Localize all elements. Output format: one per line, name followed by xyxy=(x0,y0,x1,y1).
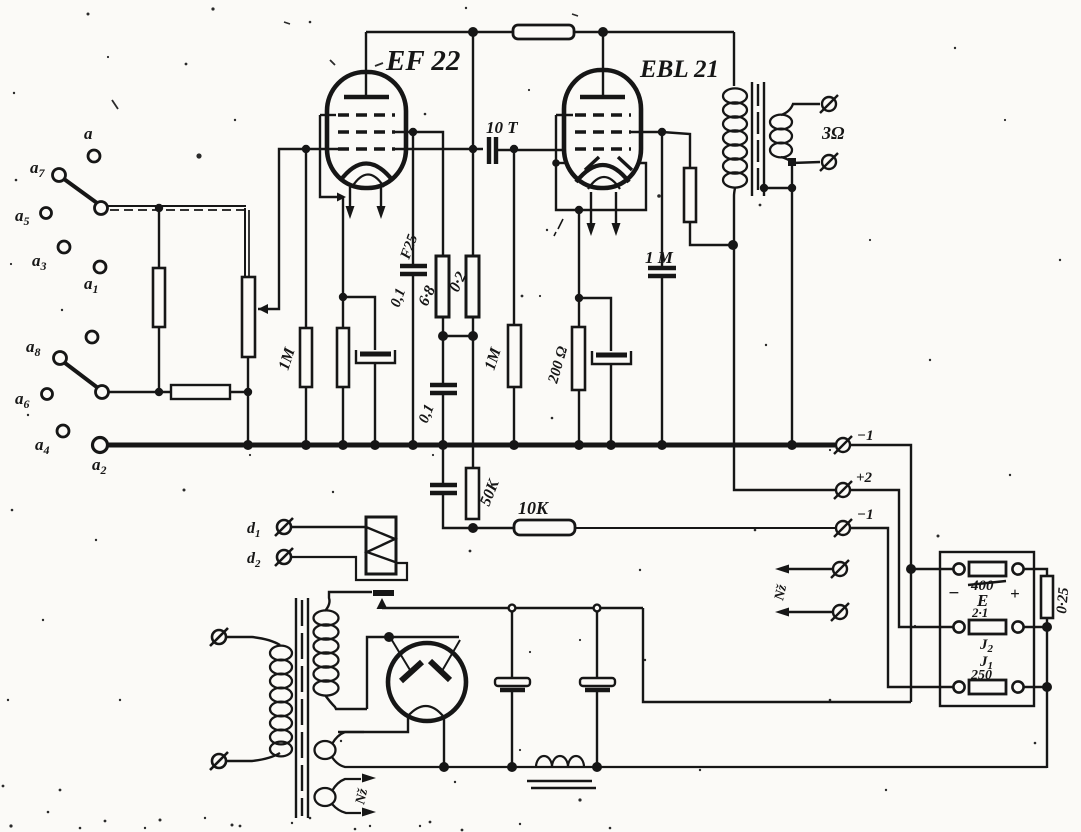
wire: cap1 drop xyxy=(511,611,513,678)
terminal mains bottom xyxy=(210,752,228,770)
wire: C8 to R8 bottom node xyxy=(443,493,473,528)
wire: wiper to EF22 grid g1 xyxy=(258,149,338,309)
terminal heater top xyxy=(831,560,849,578)
heater pin 2 arrowhead xyxy=(612,223,621,236)
EF22 g3 stub xyxy=(320,114,336,116)
wire: R12 to -1 bias terminal xyxy=(575,527,836,529)
wire: heater terminal top xyxy=(787,568,832,570)
wire: mains bottom lead xyxy=(226,753,280,761)
wire: junction down to C4 xyxy=(442,336,444,383)
switch S2 contact xyxy=(96,386,109,399)
terminal a8 xyxy=(54,352,67,365)
wire: g2 node to R11 xyxy=(662,132,690,168)
terminal mains top xyxy=(210,628,228,646)
wire: row1 junction to battery xyxy=(911,568,953,570)
junction R11 / transformer primary xyxy=(728,240,738,250)
EBL21 grid g1 row xyxy=(575,147,631,151)
junction cathode box xyxy=(575,206,583,214)
wire: R11 bottom to +2 node xyxy=(690,222,733,245)
battery row2 pin right xyxy=(1012,621,1023,632)
T1 secondary winding xyxy=(770,115,792,158)
svg-text:EBL 21: EBL 21 xyxy=(639,56,719,83)
T2 core xyxy=(296,598,308,818)
junction R4/bus xyxy=(338,440,348,450)
junction R3/bus xyxy=(301,440,311,450)
capacitor C2 (cathode bypass) xyxy=(356,350,395,363)
wire: B- line to battery column xyxy=(643,608,911,702)
terminal heater bottom xyxy=(831,603,849,621)
junction g2 node xyxy=(409,128,417,136)
junction filter cap2 top xyxy=(594,605,601,612)
wire: C7 to bus xyxy=(661,276,663,445)
junction core stub left xyxy=(760,184,768,192)
EF22 grid g2 row xyxy=(338,130,395,134)
filter capacitor C9 xyxy=(495,678,530,690)
chassis bus wire xyxy=(108,443,835,448)
wire: C6 to bus xyxy=(610,364,612,445)
EBL21 inner bottom arc xyxy=(588,177,620,189)
arrow to heater top xyxy=(775,565,789,574)
wire: filament left lead to winding xyxy=(338,717,408,732)
junction filament/B+ xyxy=(439,762,449,772)
terminal a2 (chassis bus) xyxy=(93,438,108,453)
capacitor C6 (EBL21 cathode bypass) xyxy=(592,351,631,364)
EBL21 g3 stub xyxy=(556,114,573,116)
terminal +2 xyxy=(834,481,852,499)
battery row3 fuse xyxy=(969,680,1006,694)
wire: R8 node to R12 xyxy=(473,527,514,529)
filter capacitor C10 xyxy=(580,678,615,690)
terminal a1 xyxy=(94,261,106,273)
junction pot bottom line xyxy=(244,388,252,396)
junction R10/bus xyxy=(574,440,584,450)
wire: R6 bottom to junction xyxy=(472,317,474,336)
junction core stub right xyxy=(788,184,796,192)
switch S1 arm xyxy=(64,179,97,203)
wire: R3 to bus xyxy=(305,387,307,445)
svg-text:−: − xyxy=(948,583,960,604)
svg-text:1 M: 1 M xyxy=(645,248,674,267)
resistor R13 0.25 xyxy=(1041,576,1053,618)
junction row2/right rail xyxy=(1042,622,1052,632)
resistor R8 50K xyxy=(466,468,479,519)
wire: row2 right stub xyxy=(1024,626,1047,628)
wire: -1 to battery row1 xyxy=(850,445,911,702)
EF22 heater pin 1 xyxy=(349,187,351,211)
resistor R1 (input divider) xyxy=(153,268,165,327)
battery row1 pin right xyxy=(1012,563,1023,574)
wire: C4 to bus xyxy=(442,393,444,445)
wire: C10 to B+ rail xyxy=(596,690,598,767)
rectifier anode plate right xyxy=(430,661,450,680)
svg-text:10 T: 10 T xyxy=(486,118,518,137)
wire: R4 to bus xyxy=(342,387,344,445)
heater lead top xyxy=(332,779,361,791)
junction anode/HT rail xyxy=(598,27,608,37)
wire: row3 right stub xyxy=(1024,686,1047,688)
rectifier anode plate left xyxy=(401,662,422,681)
speaker terminal bottom xyxy=(820,153,838,171)
wire: R10 to bus xyxy=(578,390,580,445)
junction C2/bus xyxy=(370,440,380,450)
pot wiper arrow xyxy=(258,304,268,314)
T1 primary winding xyxy=(723,88,747,187)
T2 HV secondary winding xyxy=(314,610,339,695)
T2 primary winding xyxy=(270,646,292,757)
wire: d1 to coil box xyxy=(291,526,366,528)
battery row3 pin left xyxy=(953,681,964,692)
wire: branch to C2 bypass xyxy=(343,297,375,350)
wire: anode riser xyxy=(367,637,389,709)
EBL21 beam plate right xyxy=(618,157,632,170)
svg-text:−1: −1 xyxy=(857,507,874,523)
battery row2 pin left xyxy=(953,621,964,632)
wire: rail down through g1 line to R6 xyxy=(472,32,474,256)
junction C7/bus xyxy=(657,440,667,450)
wire: C5 to EBL21 g1 xyxy=(497,149,564,151)
choke core line 1 xyxy=(527,780,592,782)
speaker terminal top xyxy=(820,95,838,113)
resistor R4 (EF22 cathode) xyxy=(337,328,349,387)
junction filter cap1 top xyxy=(509,605,516,612)
tube EBL21 envelope xyxy=(564,70,641,188)
EBL21 heater pin 1 xyxy=(590,192,592,228)
filter choke L1 xyxy=(536,756,584,767)
wire: junction down to R1 xyxy=(158,208,160,268)
resistor R9 1M (EBL21 grid leak) xyxy=(508,325,521,387)
resistor R6 0.2 xyxy=(466,256,479,317)
EBL21 anode lead xyxy=(602,32,604,97)
wire: secondary top lead to speaker terminal xyxy=(781,104,820,115)
EF22 grid g3 row xyxy=(338,113,395,117)
wire: junction down to R3 xyxy=(305,149,307,328)
EBL21 cathode stub xyxy=(556,162,567,164)
wire: C9 to B+ rail xyxy=(511,690,513,767)
capacitor C7 1M xyxy=(648,268,676,276)
spare terminal xyxy=(86,331,98,343)
wire: double vertical to pot xyxy=(244,208,246,277)
EBL21 grid g2 row xyxy=(575,130,631,134)
wire: branch to C6 bypass xyxy=(579,298,611,351)
T1 core xyxy=(752,82,764,196)
svg-text:3Ω: 3Ω xyxy=(821,123,845,143)
wire: junction down to R9 1M xyxy=(513,149,515,325)
winding lead top xyxy=(332,732,364,744)
field coil box xyxy=(366,517,396,574)
wire: g2 stub right xyxy=(631,131,662,133)
EBL21 grid g3 row xyxy=(575,113,631,117)
wire: bus down to C8 xyxy=(442,445,444,483)
wire: B- line from plug to filter xyxy=(382,607,643,609)
svg-text:+: + xyxy=(1010,584,1020,603)
EF22 grid g1 row xyxy=(338,147,395,151)
junction anode feed xyxy=(384,632,394,642)
terminal -1 (bias) xyxy=(834,519,852,537)
stray pen mark xyxy=(554,219,563,236)
wire: R6 node down to R8 50K (crosses bus) xyxy=(472,336,474,468)
T2 heater winding xyxy=(315,788,336,806)
wire: +2 to battery row2 xyxy=(850,490,953,627)
capacitor C4 0,1 xyxy=(430,385,457,393)
resistor R2 (horizontal) xyxy=(171,385,230,399)
wire: R2 to pot bottom xyxy=(230,391,248,393)
winding lead bottom (B+ rail start) xyxy=(332,757,1047,767)
wire: heater terminal bottom xyxy=(787,611,832,613)
wire: C2 to bus xyxy=(374,363,376,445)
EF22 heater pin 2 xyxy=(380,187,382,211)
terminal a3 xyxy=(58,241,70,253)
EF22 inner bottom arc xyxy=(352,175,384,188)
battery row2 fuse xyxy=(969,620,1006,634)
battery box outline xyxy=(940,552,1034,706)
svg-text:EF 22: EF 22 xyxy=(385,45,460,77)
wire: S1 to pot top (double shielded line) xyxy=(107,205,246,207)
junction cathode/C bypass xyxy=(575,294,583,302)
resistor R7 (HT dropper, top) xyxy=(513,25,574,39)
terminal a4 xyxy=(57,425,69,437)
junction C9/B+ xyxy=(507,762,517,772)
g3-cathode arrow xyxy=(337,193,346,202)
battery row1 pin left xyxy=(953,563,964,574)
junction R9/bus xyxy=(509,440,519,450)
EBL21 anode plate xyxy=(580,95,625,100)
resistor R5 6.8 xyxy=(436,256,449,317)
tube EF22 envelope xyxy=(327,72,406,188)
junction g1 / R3 xyxy=(302,145,310,153)
wire: g1 row to coupling cap xyxy=(395,148,483,150)
wire: R5-R6 junction link xyxy=(443,335,473,337)
wire: HV bottom lead xyxy=(325,695,367,709)
junction R6 node xyxy=(468,331,478,341)
junction C3/bus xyxy=(408,440,418,450)
wire: cathode line down to R4 xyxy=(342,197,344,328)
resistor R10 200 ohm (EBL21 cathode) xyxy=(572,327,585,390)
junction R5 node xyxy=(438,331,448,341)
svg-text:−1: −1 xyxy=(857,428,874,444)
junction on S1 line xyxy=(155,204,163,212)
wire: HV top lead to plug contact xyxy=(325,592,372,611)
wire: R1 bottom to S2 line xyxy=(158,327,160,392)
switch S1 contact xyxy=(95,202,108,215)
wire: pot bottom to bus xyxy=(247,357,249,445)
junction C4/bus xyxy=(438,440,448,450)
wire: R5 bottom to junction xyxy=(442,317,444,336)
wire: g2 node down to C7 xyxy=(661,132,663,266)
label 400 (struck) xyxy=(968,578,1006,594)
capacitor C8 xyxy=(430,485,457,493)
choke core line 2 xyxy=(531,787,596,789)
junction rail/g1 coupling node xyxy=(469,145,477,153)
terminal -1 (bus) xyxy=(834,436,852,454)
terminal a6 xyxy=(42,389,53,400)
capacitor C3 0,1 F25 xyxy=(400,266,427,274)
switch S2 arm xyxy=(65,363,98,388)
resistor R3 1M (grid leak) xyxy=(300,328,312,387)
junction R8 bottom xyxy=(468,523,478,533)
rectifier anode lead left xyxy=(390,637,410,670)
terminal a xyxy=(88,150,100,162)
junction coupling/grid leak xyxy=(510,145,518,153)
plug arrow xyxy=(377,598,388,609)
svg-text:a: a xyxy=(84,124,93,143)
terminal a5 xyxy=(41,208,52,219)
wire: cathode down to R10 xyxy=(578,210,580,327)
battery row1 fuse xyxy=(969,562,1006,576)
battery row3 pin right xyxy=(1012,681,1023,692)
wire: primary bottom to +2 terminal (crosses bus) xyxy=(734,245,835,490)
wire: row1 right to R13 xyxy=(1024,569,1047,576)
EBL21 cathode arc xyxy=(576,165,629,182)
wire: g2 stub right xyxy=(395,131,413,133)
wire: anode bridge xyxy=(389,636,459,638)
svg-text:10K: 10K xyxy=(518,498,550,518)
junction secondary bottom xyxy=(788,158,796,166)
svg-text:2·1: 2·1 xyxy=(971,605,988,620)
resistor R12 10K xyxy=(514,520,575,535)
junction pot/bus xyxy=(243,440,253,450)
junction g2 node EBL xyxy=(658,128,666,136)
junction row3/right rail xyxy=(1042,682,1052,692)
junction cathode / C bypass xyxy=(339,293,347,301)
junction C6/bus xyxy=(606,440,616,450)
wire: HT rail down to primary xyxy=(733,32,735,86)
heater arrow top xyxy=(362,774,376,783)
wire: S2 contact to R2 xyxy=(108,391,171,393)
wire: g2 node down to C3 xyxy=(412,132,414,264)
junction cathode stub xyxy=(552,159,560,167)
rectifier anode lead right xyxy=(442,640,460,671)
plug contact bar xyxy=(373,590,394,596)
heater lead bottom xyxy=(332,804,361,813)
junction S2 line / R1 xyxy=(155,388,163,396)
terminal d1 xyxy=(275,518,293,536)
wire: g2 node to R5 top xyxy=(413,132,443,256)
arrow to heater bottom xyxy=(775,608,789,617)
terminal d2 xyxy=(275,548,293,566)
heater arrow bottom xyxy=(362,808,376,817)
terminal a7 xyxy=(53,169,66,182)
field coil zigzag xyxy=(366,527,395,562)
heater pin 1 arrowhead xyxy=(587,223,596,236)
wire: cap2 drop xyxy=(596,611,598,678)
wire: mains top lead xyxy=(226,637,280,645)
junction battery row1 feed xyxy=(906,564,916,574)
EBL21 beam plate left xyxy=(585,157,599,170)
potentiometer P1 body xyxy=(242,277,255,357)
wire: secondary bottom lead xyxy=(781,157,820,163)
heater pin 1 arrowhead xyxy=(346,206,355,219)
EBL21 cathode box xyxy=(556,115,646,210)
svg-text:0·25: 0·25 xyxy=(1054,586,1072,614)
wire: R9 to bus xyxy=(513,387,515,445)
wire: R13 down the right side to B+ rail xyxy=(1046,618,1048,768)
rectifier V3 envelope xyxy=(388,643,466,721)
junction anode/R6 rail xyxy=(468,27,478,37)
wire: primary bottom lead xyxy=(734,188,735,245)
capacitor C5 10T (coupling) xyxy=(489,137,496,164)
wire: -1 bias to battery row3 xyxy=(850,528,953,687)
svg-text:+2: +2 xyxy=(856,470,873,486)
wire: filament right lead to B+ rail xyxy=(443,717,445,767)
EF22 anode plate xyxy=(344,95,389,100)
junction secondary/bus xyxy=(787,440,797,450)
EF22 anode lead xyxy=(365,32,367,97)
wire: secondary ground to bus xyxy=(791,162,793,445)
heater pin 2 arrowhead xyxy=(377,206,386,219)
resistor R11 (screen feed) xyxy=(684,168,696,222)
T2 rectifier filament winding xyxy=(315,741,336,759)
EF22 cathode arc xyxy=(340,164,393,182)
wire: EF22 anode top to HT rail xyxy=(366,31,734,33)
wire: g3 drop to cathode line xyxy=(320,115,338,197)
wire: core to secondary ground stub xyxy=(764,187,792,189)
wire: d2 to coil box (bracket) xyxy=(291,557,407,580)
junction C10/B+ xyxy=(592,762,602,772)
rectifier filament arc xyxy=(408,706,443,716)
wire: C3 to bus xyxy=(412,274,414,445)
EBL21 heater pin 2 xyxy=(615,192,617,228)
